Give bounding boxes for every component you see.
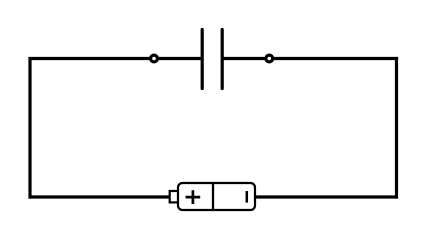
battery BT1 plus symbol bbox=[186, 190, 201, 204]
wire bottom-left segment bbox=[29, 195, 171, 198]
capacitor C1 left plate bbox=[201, 30, 204, 89]
wire top-right segment bbox=[222, 57, 398, 60]
wire bottom-right segment bbox=[254, 195, 398, 198]
battery BT1 body bbox=[178, 183, 255, 210]
wire top-left segment bbox=[29, 57, 203, 60]
node right capacitor terminal bbox=[266, 55, 273, 62]
wire right vertical segment bbox=[395, 57, 398, 199]
capacitor C1 right plate bbox=[221, 30, 224, 89]
battery BT1 cell divider bbox=[212, 183, 214, 210]
node left capacitor terminal bbox=[151, 55, 158, 62]
battery BT1 negative terminal bar bbox=[246, 191, 249, 203]
wire left vertical segment bbox=[28, 57, 31, 199]
battery BT1 terminal nub bbox=[170, 191, 179, 202]
